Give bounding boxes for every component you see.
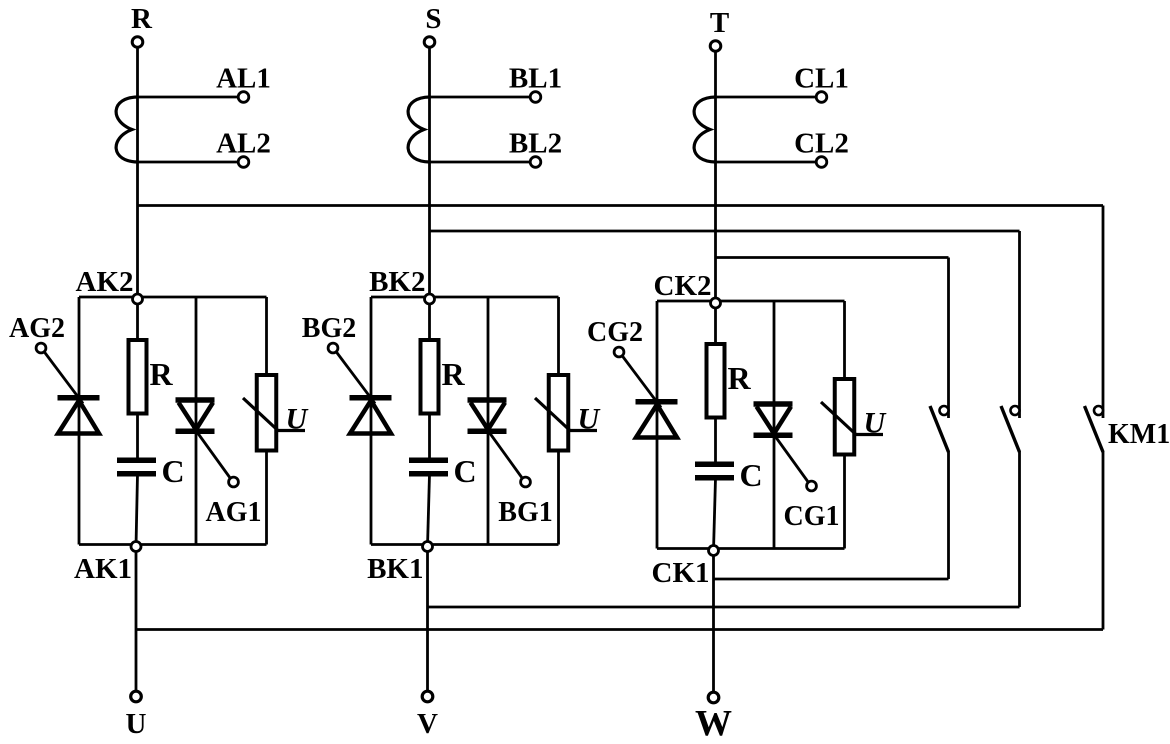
svg-text:BL1: BL1 xyxy=(509,63,562,95)
inductor CL (T phase) xyxy=(694,97,715,162)
thyristor BG2 (anti-parallel, cathode up) xyxy=(350,398,392,434)
node BK1 xyxy=(367,542,432,586)
wire bypass right drop (R) xyxy=(1102,206,1105,419)
node BK2 xyxy=(369,266,434,304)
gate wire CG2 xyxy=(622,356,661,408)
wire T terminal to inductor xyxy=(714,52,717,98)
svg-text:U: U xyxy=(126,708,147,739)
resistor R (S phase) xyxy=(421,340,466,414)
wire parallel-block top rail (AK2) xyxy=(79,296,267,299)
gate terminal CG2 xyxy=(587,317,643,357)
resistor R (T phase) xyxy=(707,344,752,418)
thyristor AG1 (cathode down) xyxy=(176,400,215,431)
svg-text:R: R xyxy=(131,3,153,35)
tap terminal AL1 xyxy=(216,63,271,103)
wire to tap BL2 xyxy=(430,161,531,164)
wire CK2 to resistor xyxy=(714,303,717,464)
capacitor C (S phase) xyxy=(409,453,477,489)
svg-text:C: C xyxy=(454,453,477,489)
wire bypass bottom bus (S) xyxy=(428,606,1020,609)
varistor U (T phase) xyxy=(821,379,887,455)
svg-text:U: U xyxy=(864,407,887,440)
gate terminal BG2 xyxy=(302,313,356,353)
svg-text:W: W xyxy=(695,704,732,740)
gate terminal AG2 xyxy=(9,313,65,353)
contactor switch KM1 pole (S phase bypass) xyxy=(1001,406,1020,452)
svg-text:AG2: AG2 xyxy=(9,313,65,344)
tap terminal CL2 xyxy=(794,128,849,168)
wire parallel-block bottom rail (BK1) xyxy=(371,543,559,546)
gate wire AG2 xyxy=(44,352,83,404)
wire inductor to node BK2 xyxy=(428,162,431,299)
wire switch to bottom bus (S) xyxy=(1018,451,1021,607)
thyristor BG1 (cathode down) xyxy=(468,400,507,431)
svg-text:CK1: CK1 xyxy=(652,557,710,589)
resistor R (R phase) xyxy=(129,340,174,414)
svg-text:CL2: CL2 xyxy=(794,128,849,160)
svg-text:AK1: AK1 xyxy=(74,553,132,585)
tap terminal BL2 xyxy=(509,128,562,168)
gate wire AG1 xyxy=(193,427,231,479)
wire to tap CL1 xyxy=(716,96,817,99)
svg-text:CG1: CG1 xyxy=(784,501,840,532)
thyristor AG2 (anti-parallel, cathode up) xyxy=(58,398,100,434)
wire through inductor xyxy=(428,97,431,162)
svg-text:R: R xyxy=(728,360,752,396)
varistor U (S phase) xyxy=(535,375,601,451)
wire through inductor xyxy=(136,97,139,162)
wire capacitor to node BK1 xyxy=(428,475,430,547)
thyristor CG2 (anti-parallel, cathode up) xyxy=(636,402,678,438)
svg-text:AG1: AG1 xyxy=(206,497,262,528)
svg-text:C: C xyxy=(740,457,763,493)
svg-text:R: R xyxy=(150,356,174,392)
svg-text:BG1: BG1 xyxy=(498,497,552,528)
wire switch to bottom bus (T) xyxy=(947,451,950,579)
tap terminal CL1 xyxy=(794,63,849,103)
capacitor C (R phase) xyxy=(117,453,185,489)
svg-text:KM1: KM1 xyxy=(1108,419,1170,450)
wire BK2 to resistor xyxy=(428,299,431,460)
inductor BL (S phase) xyxy=(408,97,429,162)
wire left branch (thyristor AG2) xyxy=(78,297,81,545)
wire left branch (thyristor CG2) xyxy=(656,301,659,549)
wire left branch (thyristor BG2) xyxy=(370,297,373,545)
gate wire CG1 xyxy=(771,431,809,483)
wire to tap CL2 xyxy=(716,161,817,164)
wire bypass right drop (S) xyxy=(1018,231,1021,418)
output terminal W xyxy=(695,692,732,744)
svg-text:CL1: CL1 xyxy=(794,63,849,95)
wire switch to bottom bus (R) xyxy=(1102,451,1105,630)
svg-text:C: C xyxy=(162,453,185,489)
wire right branch (varistor U) xyxy=(265,297,268,545)
tap terminal AL2 xyxy=(216,128,271,168)
svg-text:S: S xyxy=(425,3,441,35)
tap terminal BL1 xyxy=(509,63,562,103)
wire through inductor xyxy=(714,97,717,162)
svg-text:BK2: BK2 xyxy=(369,266,425,298)
gate wire BG2 xyxy=(336,352,375,404)
node CK2 xyxy=(654,270,721,308)
svg-text:AL2: AL2 xyxy=(216,128,271,160)
svg-text:U: U xyxy=(286,403,309,436)
wire S terminal to inductor xyxy=(428,48,431,98)
wire parallel-block bottom rail (AK1) xyxy=(79,543,267,546)
contactor switch KM1 pole (T phase bypass) xyxy=(930,406,949,452)
capacitor C (T phase) xyxy=(695,457,763,493)
wire bypass top rail from R line xyxy=(138,204,1104,207)
output terminal V xyxy=(417,691,438,740)
wire to tap AL1 xyxy=(138,96,239,99)
wire parallel-block top rail (CK2) xyxy=(657,300,845,303)
inductor AL (R phase) xyxy=(116,97,137,162)
wire to tap BL1 xyxy=(430,96,531,99)
wire bypass bottom bus (R) xyxy=(136,628,1103,631)
wire R terminal to inductor xyxy=(136,48,139,98)
svg-text:AL1: AL1 xyxy=(216,63,271,95)
node CK1 xyxy=(652,546,719,590)
wire BK1 to output terminal xyxy=(426,547,429,697)
wire inductor to node AK2 xyxy=(136,162,139,299)
wire bypass bottom bus (T) xyxy=(714,578,949,581)
gate wire BG1 xyxy=(485,427,523,479)
phase terminal T xyxy=(710,7,729,51)
svg-text:CK2: CK2 xyxy=(654,270,712,302)
wire right branch (varistor U) xyxy=(557,297,560,545)
svg-text:T: T xyxy=(710,7,729,39)
node AK2 xyxy=(76,266,143,304)
wire CK1 to output terminal xyxy=(712,551,715,698)
wire parallel-block top rail (BK2) xyxy=(371,296,559,299)
varistor U (R phase) xyxy=(243,375,309,451)
svg-text:BL2: BL2 xyxy=(509,128,562,160)
wire bypass top rail from T line xyxy=(716,256,949,259)
output terminal U xyxy=(126,691,147,740)
contactor switch KM1 pole (R phase bypass) xyxy=(1085,406,1170,452)
wire to tap AL2 xyxy=(138,161,239,164)
node AK1 xyxy=(74,542,141,586)
wire middle branch (thyristor AG1) xyxy=(195,297,198,545)
wire capacitor to node AK1 xyxy=(136,475,138,547)
svg-text:V: V xyxy=(417,708,438,739)
wire right branch (varistor U) xyxy=(843,301,846,549)
wire middle branch (thyristor BG1) xyxy=(487,297,490,545)
wire inductor to node CK2 xyxy=(714,162,717,303)
gate terminal BG1 xyxy=(498,477,552,528)
svg-text:U: U xyxy=(578,403,601,436)
wire capacitor to node CK1 xyxy=(714,479,716,551)
wire AK2 to resistor xyxy=(136,299,139,460)
wire AK1 to output terminal xyxy=(135,547,138,697)
svg-text:R: R xyxy=(442,356,466,392)
svg-text:BG2: BG2 xyxy=(302,313,356,344)
svg-text:BK1: BK1 xyxy=(367,553,423,585)
phase terminal S xyxy=(424,3,441,47)
wire bypass right drop (T) xyxy=(947,258,950,419)
thyristor CG1 (cathode down) xyxy=(754,404,793,435)
gate terminal CG1 xyxy=(784,481,840,532)
gate terminal AG1 xyxy=(206,477,262,528)
phase terminal R xyxy=(131,3,153,47)
wire parallel-block bottom rail (CK1) xyxy=(657,547,845,550)
wire middle branch (thyristor CG1) xyxy=(773,301,776,549)
wire bypass top rail from S line xyxy=(430,230,1020,233)
svg-text:CG2: CG2 xyxy=(587,317,643,348)
svg-text:AK2: AK2 xyxy=(76,266,134,298)
